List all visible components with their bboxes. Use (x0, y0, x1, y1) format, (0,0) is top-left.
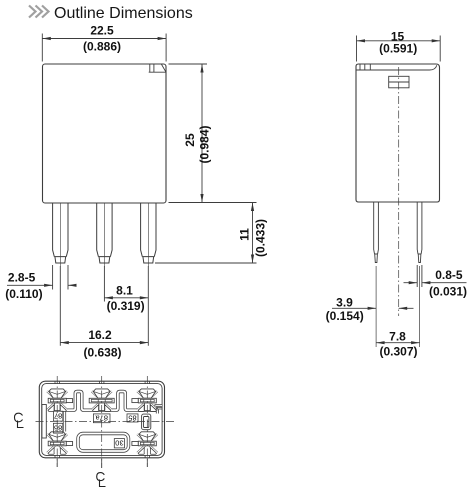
svg-text:2.8-5: 2.8-5 (8, 271, 36, 285)
bottom view centerline stubs below body (57, 459, 147, 469)
pin slot top-centre (89, 389, 114, 412)
front view body (43, 64, 167, 203)
side pin A (374, 202, 379, 263)
pin slot bottom-right (132, 432, 157, 455)
svg-text:0.8-5: 0.8-5 (435, 268, 463, 282)
dimension 15 top of side view (357, 36, 441, 62)
dimension 11 pin length (155, 203, 257, 264)
svg-text:16.2: 16.2 (88, 328, 112, 342)
svg-text:3.9: 3.9 (336, 296, 353, 310)
bottom view outer outline (39, 381, 164, 458)
svg-text:(0.307): (0.307) (379, 345, 417, 359)
svg-text:(0.154): (0.154) (326, 309, 364, 323)
bottom view comb wall (63, 392, 162, 411)
side view vent rectangle (389, 76, 409, 88)
svg-text:7.8: 7.8 (389, 330, 406, 344)
side pin A centre extension (375, 266, 377, 347)
svg-text:85: 85 (128, 413, 136, 422)
svg-text:(0.031): (0.031) (429, 284, 467, 298)
pin slot necks (54, 403, 60, 411)
bottom view left connecting wall (63, 411, 66, 432)
svg-text:30: 30 (115, 439, 123, 448)
centerline symbol bottom (97, 473, 106, 487)
side view top seam (356, 65, 437, 70)
bottom view vertical centerline centre (101, 376, 103, 468)
side view top-left ticks (360, 64, 370, 70)
pin slot bottom-left (47, 432, 72, 455)
svg-text:86: 86 (54, 424, 62, 433)
label 85 (127, 413, 138, 422)
svg-text:87: 87 (54, 411, 62, 420)
svg-text:(0.638): (0.638) (83, 346, 121, 360)
bottom view vertical centerline right (146, 376, 148, 467)
title chevrons (29, 6, 49, 18)
svg-text:11: 11 (238, 228, 252, 241)
dimension 7.8 (376, 342, 420, 344)
side view body (356, 64, 440, 202)
pin slot top-right (132, 389, 157, 412)
svg-text:(0.984): (0.984) (198, 125, 212, 163)
bottom view right slot (142, 414, 151, 430)
front pin 1 (53, 203, 68, 263)
dimension 0.8-5 pin thickness (404, 265, 467, 287)
bottom view vertical centerline left (56, 376, 58, 467)
dimension 22.5 top of front view (42, 34, 166, 62)
shared extension line at body bottom level (169, 202, 257, 204)
bottom view edge ticks (55, 381, 150, 458)
front pin 2 (97, 203, 112, 263)
front pin 2 centerline (103, 203, 105, 267)
label 86 (53, 423, 62, 433)
svg-text:(0.433): (0.433) (254, 219, 268, 257)
bottom view left tab (42, 405, 46, 439)
svg-text:8.1: 8.1 (116, 284, 133, 298)
svg-text:22.5: 22.5 (90, 24, 114, 38)
dimension 25 right of front view (169, 64, 208, 203)
svg-text:(0.591): (0.591) (379, 42, 417, 56)
front pin 3 centerline (147, 203, 149, 267)
dimension 3.9 (332, 307, 414, 309)
label 87 (53, 411, 62, 421)
side pin B centre extension (419, 266, 421, 347)
side pin B (417, 202, 422, 263)
front view top-right notch (149, 64, 166, 72)
centerline symbol left (15, 413, 24, 427)
pin slot top-left (47, 389, 72, 412)
bottom view right step (156, 407, 162, 414)
bottom view central cavity (78, 434, 129, 452)
svg-text:(0.886): (0.886) (83, 40, 121, 54)
svg-text:Outline Dimensions: Outline Dimensions (54, 5, 193, 22)
dimension 8.1 pin pitch (104, 266, 148, 302)
svg-text:25: 25 (183, 133, 197, 147)
svg-text:(0.319): (0.319) (107, 299, 145, 313)
dimension 16.2 outer pin pitch (60, 266, 148, 346)
label 87a (93, 414, 110, 423)
bottom view inner outline (42, 384, 162, 456)
front pin 1 centerline (59, 203, 61, 267)
svg-text:(0.110): (0.110) (5, 287, 42, 301)
front pin 3 (141, 203, 156, 263)
dimension 2.8-5 pin width (7, 265, 76, 290)
label 30 (114, 439, 124, 448)
bottom view horizontal centerline (36, 420, 177, 422)
side view centerline (398, 67, 400, 316)
